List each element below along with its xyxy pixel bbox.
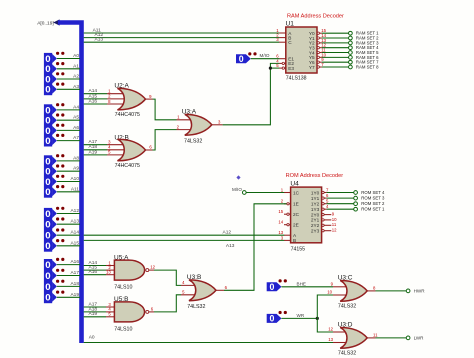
bus label A[0..19]: [37, 19, 59, 26]
svg-text:0: 0: [45, 231, 50, 242]
U4 pin 2 1E: [281, 199, 291, 205]
wire A1 to bus: [57, 63, 80, 69]
logic state bank A0-A3: [44, 52, 65, 96]
svg-text:M/IO: M/IO: [232, 187, 242, 192]
svg-text:A[0..19]: A[0..19]: [37, 21, 54, 27]
svg-text:1E: 1E: [293, 202, 299, 207]
wire A15 bus to U5:A pin 2: [84, 265, 116, 271]
wire A16 to bus: [57, 259, 80, 265]
logic state bank A12-A15: [44, 207, 65, 253]
svg-text:ROM SET 3: ROM SET 3: [361, 196, 385, 201]
svg-text:2C: 2C: [293, 212, 300, 217]
svg-text:WR: WR: [297, 313, 305, 318]
svg-text:A1: A1: [73, 63, 79, 69]
svg-text:74HC4075: 74HC4075: [115, 112, 140, 118]
U4 pin 3 B: [281, 235, 291, 240]
wire A5 to bus: [57, 115, 80, 121]
svg-text:A14: A14: [70, 230, 79, 236]
wire A15 bus to U2:A pin 2: [84, 93, 127, 99]
svg-text:10: 10: [327, 290, 332, 295]
U1 pin 2: [276, 33, 286, 38]
svg-text:2Y0: 2Y0: [311, 212, 320, 217]
U4 pin 11 2Y2 stub: [322, 222, 337, 227]
svg-text:11: 11: [373, 333, 378, 338]
svg-text:0: 0: [45, 209, 50, 220]
U1 pin 6: [276, 54, 286, 59]
svg-text:A15: A15: [70, 240, 79, 246]
wire A6 to bus: [57, 125, 80, 131]
wire U3:A output pin 3 to U1 E2/E3: [212, 63, 280, 124]
svg-text:14: 14: [278, 220, 283, 225]
or-gate U3:C 74LS32: [338, 274, 368, 309]
wire A12 to bus: [57, 208, 80, 214]
svg-text:74LS32: 74LS32: [187, 304, 205, 310]
svg-text:RAM Address Decoder: RAM Address Decoder: [287, 13, 344, 19]
U1 pin 12 Y3 wire to RAM SET 4 terminal: [317, 43, 379, 51]
U1 pin 1: [276, 28, 286, 33]
U4 pin 12 2Y3 stub: [322, 228, 337, 233]
logic state bank A16-A19: [44, 258, 65, 304]
svg-text:2Y2: 2Y2: [311, 223, 320, 228]
wire U2:A output pin 9 to U3:A pin 1: [146, 94, 194, 120]
svg-text:A19: A19: [89, 149, 98, 155]
U1 pin 9 Y6 wire to RAM SET 7 terminal: [317, 57, 379, 65]
svg-text:0: 0: [269, 314, 274, 324]
U1 pin 13 Y2 wire to RAM SET 3 terminal: [317, 38, 379, 46]
svg-text:LWR: LWR: [414, 336, 425, 341]
wire A12 bus to U4 pin A: [84, 230, 285, 236]
svg-text:A5: A5: [73, 115, 79, 121]
svg-text:A16: A16: [89, 269, 98, 275]
U1 pin 5: [276, 63, 286, 69]
wire A18 bus to U5:B pin 4: [84, 306, 116, 312]
svg-text:2E: 2E: [293, 223, 299, 228]
wire A11 bus to U1: [84, 27, 280, 33]
U1 pin 7 Y7 wire to RAM SET 8 terminal: [317, 62, 379, 70]
U4 pin 9 2Y0 stub: [322, 212, 335, 217]
label ROM Address Decoder: [286, 173, 344, 179]
svg-text:A15: A15: [89, 93, 98, 99]
svg-text:A18: A18: [89, 144, 98, 150]
svg-text:11: 11: [332, 222, 337, 227]
svg-text:2Y1: 2Y1: [311, 218, 320, 223]
wire A8 to bus: [57, 155, 80, 161]
svg-text:A12: A12: [70, 208, 79, 214]
U1 pin 4: [276, 58, 286, 64]
wire A19 to bus: [57, 292, 80, 298]
wire U2:B output pin 6 to U3:A pin 2: [146, 124, 194, 150]
wire M/IO to U1 E1: [251, 53, 280, 59]
U1 pin 10 Y5 wire to RAM SET 6 terminal: [317, 52, 379, 60]
svg-text:0: 0: [269, 282, 274, 292]
logic state BHE: [267, 279, 287, 292]
svg-text:1Y3: 1Y3: [311, 207, 320, 212]
svg-text:A0: A0: [89, 335, 95, 341]
logic state WR: [267, 311, 287, 324]
svg-text:74LS32: 74LS32: [338, 303, 356, 309]
wire A13 bus to U4 pin B: [84, 240, 285, 248]
svg-text:A4: A4: [73, 104, 79, 110]
or-gate U2:B 74HC4075: [114, 135, 145, 169]
wire A18 to bus: [57, 281, 80, 287]
svg-text:A8: A8: [73, 155, 79, 161]
logic state bank A4-A7: [44, 103, 65, 147]
U1 pin 3: [276, 37, 286, 42]
marker diamond: [236, 175, 240, 179]
svg-text:74155: 74155: [291, 247, 306, 253]
wire A18 bus to U2:B pin 4: [84, 144, 127, 150]
or-gate U3:B 74LS32: [187, 274, 216, 310]
svg-text:13: 13: [328, 337, 333, 342]
U4 pin 5 1Y2 wire to ROM SET 2 terminal: [322, 199, 385, 207]
wire A9 to bus: [57, 166, 80, 172]
svg-text:74LS10: 74LS10: [114, 285, 132, 291]
svg-text:12: 12: [332, 228, 337, 233]
U4 pin 7 1Y0 wire to ROM SET 4 terminal: [322, 187, 385, 195]
junction WR node: [316, 317, 319, 320]
logic state bank A8-A11: [44, 154, 65, 198]
wire A7 to bus: [57, 135, 80, 141]
wire A3 to bus: [57, 84, 80, 90]
wire A10 to bus: [57, 176, 80, 182]
IC U1 74LS138: [286, 21, 318, 82]
svg-text:74LS32: 74LS32: [184, 139, 202, 145]
wire WR to junction: [282, 313, 318, 319]
or-gate U3:D 74LS32: [338, 321, 368, 356]
svg-text:10: 10: [332, 217, 337, 222]
U4 pin 4 1Y3 wire to ROM SET 1 terminal: [322, 204, 385, 212]
wire A12 bus to U1: [84, 32, 280, 38]
svg-text:1Y2: 1Y2: [311, 202, 320, 207]
or-gate U3:A 74LS32: [182, 108, 212, 144]
svg-text:74LS32: 74LS32: [338, 351, 356, 357]
terminal M/IO: [232, 187, 246, 194]
svg-text:0: 0: [45, 85, 50, 96]
logic state M/IO (U1 E1): [236, 52, 257, 64]
wire A11 to bus: [57, 186, 80, 192]
svg-text:74HC4075: 74HC4075: [115, 163, 140, 169]
svg-text:A14: A14: [89, 88, 98, 94]
svg-text:0: 0: [45, 187, 50, 198]
svg-text:A16: A16: [89, 98, 98, 104]
wire A14 to bus: [57, 230, 80, 236]
wire A17 bus to U5:B pin 3: [84, 301, 116, 307]
wire A15 to bus: [57, 240, 80, 246]
svg-text:0: 0: [45, 241, 50, 252]
svg-text:74LS10: 74LS10: [114, 326, 132, 332]
wire A14 bus to U2:A pin 1: [84, 88, 127, 94]
wire A14 bus to U5:A pin 1: [84, 260, 116, 266]
svg-text:0: 0: [239, 54, 244, 64]
svg-text:1Y1: 1Y1: [311, 196, 320, 201]
nand-gate U5:B 74LS10: [114, 296, 149, 332]
svg-text:A9: A9: [73, 166, 79, 172]
label RAM Address Decoder: [287, 13, 344, 19]
svg-text:B: B: [293, 238, 296, 243]
U4 pin 6 1Y1 wire to ROM SET 3 terminal: [322, 193, 385, 201]
svg-text:A17: A17: [70, 270, 79, 276]
U4 pin 10 2Y1 stub: [322, 217, 337, 222]
wire A19 bus to U2:B pin 5: [84, 149, 127, 155]
svg-text:A2: A2: [73, 74, 79, 80]
wire U5:B output pin 6 to U3:B pin 5: [149, 290, 198, 312]
svg-text:15: 15: [278, 209, 283, 214]
address bus A[0..19]: [58, 23, 82, 344]
wire U3:D output pin 11 to LWR terminal: [367, 333, 424, 341]
wire A0 bus to U3:D pin 13: [84, 335, 349, 343]
svg-text:A7: A7: [73, 135, 79, 141]
svg-text:1Y0: 1Y0: [311, 190, 320, 195]
svg-text:12: 12: [150, 265, 155, 270]
svg-text:ROM SET 2: ROM SET 2: [361, 201, 385, 206]
svg-text:M/IO: M/IO: [260, 53, 270, 58]
svg-text:ROM SET 1: ROM SET 1: [361, 207, 385, 212]
wire A17 bus to U2:B pin 3: [84, 139, 127, 145]
wire A16 bus to U5:A pin 13: [84, 269, 116, 275]
svg-text:A19: A19: [89, 311, 98, 317]
U1 pin 14 Y1 wire to RAM SET 2 terminal: [317, 33, 379, 41]
svg-text:A13: A13: [226, 243, 235, 249]
svg-text:13: 13: [106, 270, 111, 275]
U4 pin 13 A: [278, 230, 290, 235]
wire A16 bus to U2:A pin 8: [84, 98, 127, 104]
junction U1 E3: [269, 67, 272, 70]
U1 pin 15 Y0 wire to RAM SET 1 terminal: [317, 28, 379, 36]
nand-gate U5:A 74LS10: [114, 255, 149, 291]
or-gate U2:A 74HC4075: [114, 82, 145, 117]
svg-text:HWR: HWR: [414, 289, 426, 294]
svg-text:A0: A0: [73, 53, 79, 59]
svg-text:RAM SET 8: RAM SET 8: [356, 65, 379, 70]
svg-text:A18: A18: [70, 281, 79, 287]
wire A2 to bus: [57, 74, 80, 80]
svg-text:0: 0: [45, 136, 50, 147]
IC U4 74155: [290, 181, 321, 253]
wire U3:C output pin 8 to HWR terminal: [367, 286, 425, 294]
wire A13 to bus: [57, 219, 80, 225]
wire A17 to bus: [57, 270, 80, 276]
wire WR junction to U3:D pin 12: [317, 318, 348, 332]
wire U3:B output pin 6 to U4 1E: [216, 204, 287, 290]
wire U5:A output pin 12 to U3:B pin 4: [149, 265, 198, 286]
svg-text:Y7: Y7: [309, 65, 315, 70]
U4 pin 14 2E: [278, 220, 290, 226]
svg-text:BHE: BHE: [297, 281, 306, 286]
svg-text:1C: 1C: [293, 190, 300, 195]
svg-text:A13: A13: [95, 37, 104, 43]
svg-text:0: 0: [45, 220, 50, 231]
svg-text:0: 0: [45, 271, 50, 282]
wire A13 bus to U1: [84, 37, 280, 43]
wire BHE to U3:C pin 9: [282, 281, 349, 287]
svg-text:0: 0: [45, 282, 50, 293]
svg-text:0: 0: [45, 260, 50, 271]
U4 pin 1 1C: [281, 187, 291, 192]
svg-text:74LS138: 74LS138: [286, 76, 307, 82]
wire M/IO terminal to U4 1C: [246, 192, 284, 194]
svg-text:A3: A3: [73, 84, 79, 90]
svg-text:A6: A6: [73, 125, 79, 131]
wire A19 bus to U5:B pin 5: [84, 311, 116, 317]
svg-text:A10: A10: [70, 176, 79, 182]
svg-text:A12: A12: [223, 230, 232, 236]
svg-text:A17: A17: [89, 139, 98, 145]
U4 pin 15 2C: [278, 209, 290, 215]
svg-text:A16: A16: [70, 259, 79, 265]
svg-text:0: 0: [45, 293, 50, 304]
wire A4 to bus: [57, 104, 80, 110]
svg-text:A19: A19: [70, 292, 79, 298]
svg-text:A13: A13: [70, 219, 79, 225]
U1 pin 11 Y4 wire to RAM SET 5 terminal: [317, 47, 379, 55]
svg-text:2Y3: 2Y3: [311, 229, 320, 234]
svg-text:12: 12: [328, 327, 333, 332]
wire A0 to bus: [57, 53, 80, 59]
svg-text:ROM Address Decoder: ROM Address Decoder: [286, 173, 344, 179]
svg-text:E3: E3: [288, 66, 294, 71]
svg-text:ROM SET 4: ROM SET 4: [361, 190, 385, 195]
svg-text:A11: A11: [71, 186, 80, 192]
wire WR junction to U3:C pin 10: [317, 290, 348, 319]
